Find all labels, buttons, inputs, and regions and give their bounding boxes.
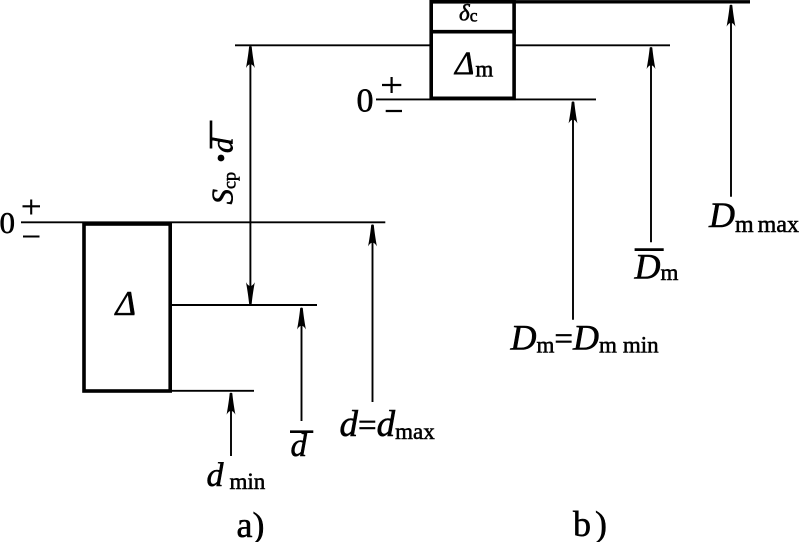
arrow d̄ [297,308,306,421]
arrow d min [227,393,236,456]
minus sign a [23,235,40,237]
svg-text:Dm=Dmmin: Dm=Dmmin [510,318,660,358]
arrow Dm max [727,5,736,197]
mean line a [172,304,317,306]
label D̄m [634,247,679,287]
bottom extension line a [172,390,254,392]
svg-text:Dm: Dm [634,247,679,287]
svg-text:dmin: dmin [207,457,266,494]
svg-text:d=dmax: d=dmax [340,404,436,445]
label Scp·d̄ (rotated) [205,121,240,205]
arrow d=d max [368,225,377,402]
svg-text:a): a) [237,505,265,542]
plus sign a [23,200,41,215]
top line extension b [514,0,750,3]
tolerance zone rect Δ (a) [84,224,170,391]
minus sign b [386,110,402,112]
double arrow Scp·d̄ [246,46,255,304]
arrow Dm=Dm min [569,102,578,320]
svg-text:Δ: Δ [114,284,137,323]
tolerance rect b (δc over Δm) [431,2,514,99]
svg-text:0: 0 [0,205,15,240]
svg-text:b): b) [573,504,607,542]
svg-text:Dmmax: Dmmax [708,195,799,238]
svg-text:d: d [291,428,308,464]
divider line in rect b [430,30,517,34]
line at mean Dm level (y45) [235,44,670,46]
svg-text:0: 0 [357,83,374,120]
label d̄ [290,428,313,464]
plus sign b [382,77,401,93]
arrow D̄m [647,47,656,242]
zero line b [376,98,596,100]
zero line a [21,221,385,223]
